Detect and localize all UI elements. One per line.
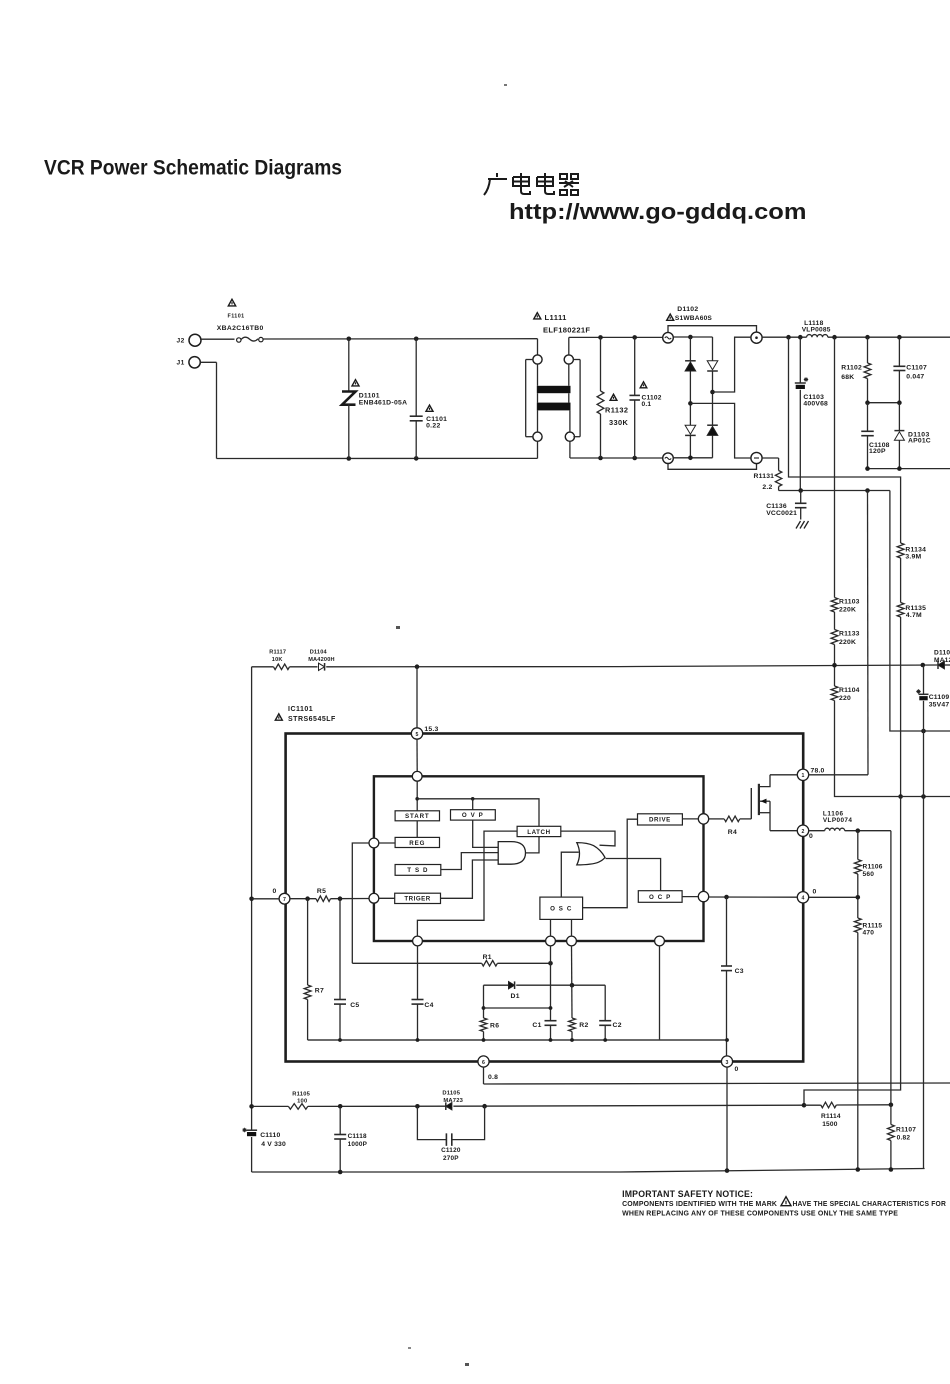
inner pin trigger: [369, 893, 379, 903]
junction top at C1102: [632, 335, 637, 340]
OR gate: [577, 843, 605, 865]
svg-text:2.2: 2.2: [762, 484, 772, 491]
capacitor C1120 bypass loop: [417, 1106, 446, 1139]
fuse F1101: [237, 338, 241, 342]
wire bridge positive link: [713, 337, 751, 392]
svg-text:VCC0021: VCC0021: [766, 510, 797, 517]
junction startup rail at R1103 chain: [832, 663, 837, 668]
resistor R1: [482, 961, 498, 967]
scan speck: [504, 84, 507, 86]
wire: ovp to gate input1: [473, 820, 499, 847]
wire: R5 to trigger pin: [331, 898, 370, 900]
inductor L1118: [807, 335, 828, 338]
svg-text:C3: C3: [735, 968, 744, 975]
safety notice warning triangle: [781, 1197, 791, 1206]
AND gate: [498, 842, 525, 865]
wire: osc to drive: [583, 819, 638, 908]
junction bus R2: [570, 1038, 574, 1042]
svg-text:5: 5: [416, 732, 419, 738]
wire: ground return rail: [252, 1171, 620, 1173]
junction R1131 net at C1136: [798, 488, 803, 493]
junction B+ at C1103: [798, 335, 803, 340]
wire: R1115 to bottom rail: [857, 933, 859, 1170]
junction L1106 output: [856, 828, 861, 833]
pin 5: [411, 728, 422, 739]
junction bridge top left leg: [688, 335, 693, 340]
junction R7 top: [305, 896, 310, 901]
junction bus C2: [603, 1038, 607, 1042]
svg-text:C1: C1: [532, 1022, 541, 1029]
svg-text:3: 3: [726, 1060, 729, 1066]
svg-text:35V47: 35V47: [929, 702, 950, 709]
junction top at R1132: [598, 335, 603, 340]
junction at C1109 bottom: [921, 729, 926, 734]
wire: R1131 net drop x890: [890, 491, 950, 732]
svg-text:0.8: 0.8: [488, 1074, 498, 1081]
svg-text:J2: J2: [177, 338, 185, 345]
junction bridge right mid: [710, 390, 715, 395]
wire: start-reg link: [416, 821, 418, 838]
svg-text:R1134: R1134: [905, 547, 926, 554]
svg-text:68K: 68K: [841, 374, 854, 381]
junction left rail at R1105: [249, 1104, 254, 1109]
junction left rail at pin7: [249, 897, 254, 902]
block OVP: [451, 810, 496, 820]
diode bridge top-right: [707, 361, 718, 370]
svg-text:VLP0074: VLP0074: [823, 817, 852, 824]
svg-text:D1105: D1105: [442, 1091, 460, 1097]
wire: vcc rail mid: [308, 1105, 446, 1107]
pin 6: [478, 1056, 489, 1067]
resistor R1133: [834, 612, 836, 630]
svg-text:1: 1: [802, 773, 805, 779]
wire: drive pin to R4: [709, 818, 725, 820]
wire: left rail: [251, 667, 253, 1130]
polarity mark C1110: [242, 1128, 246, 1132]
warning triangle for IC1101: [275, 714, 282, 720]
wire: drive to pin: [682, 818, 698, 820]
svg-text:STRS6545LF: STRS6545LF: [288, 716, 336, 723]
connector J1: [189, 357, 200, 368]
inner pin reg: [369, 838, 379, 848]
resistor R1106: [857, 831, 859, 860]
junction ovp feed: [471, 797, 475, 801]
block REG: [395, 837, 439, 847]
wire: latch feed horizontal: [417, 799, 539, 827]
wire: D1 loop left drop: [483, 985, 485, 1018]
resistor R7: [307, 899, 309, 985]
ground: [796, 521, 809, 529]
resistor R1131: [775, 471, 781, 487]
svg-text:D1: D1: [511, 993, 520, 1000]
wire: vcc rail left: [252, 1105, 289, 1107]
svg-text:C4: C4: [424, 1002, 433, 1009]
wire: drain to pin1: [770, 774, 797, 776]
wire bridge left diode leg: [689, 337, 691, 361]
svg-text:HAVE THE SPECIAL CHARACTERISTI: HAVE THE SPECIAL CHARACTERISTICS FOR: [793, 1199, 947, 1208]
svg-text:220K: 220K: [839, 607, 856, 614]
inner pin top: [412, 771, 422, 781]
svg-text:D1102: D1102: [677, 306, 698, 313]
wire: B+ sense drop x788: [789, 337, 901, 543]
wire: osc to or gate input: [561, 852, 579, 897]
wire: internal ground bus: [308, 1039, 727, 1041]
resistor R6: [480, 1018, 487, 1032]
junction D1 line at R2: [570, 983, 575, 988]
block START: [395, 811, 439, 821]
bridge AC terminal bottom: [663, 453, 674, 464]
junction startup rail at pin5: [415, 664, 420, 669]
wire: and gate to latch: [526, 837, 540, 853]
svg-text:270P: 270P: [443, 1155, 459, 1162]
junction on bottom rail at D1101: [347, 456, 352, 461]
wire: C1109 column lower: [923, 797, 925, 1169]
svg-text:0: 0: [273, 888, 277, 895]
svg-text:R1: R1: [483, 954, 492, 961]
svg-text:78.0: 78.0: [811, 768, 825, 775]
warning triangle for C1101: [426, 405, 433, 411]
wire: pin3 column lower: [726, 1067, 728, 1170]
capacitor C3: [726, 897, 728, 966]
wire: pin1 to riser: [809, 774, 868, 776]
capacitor C2: [599, 1020, 611, 1022]
svg-text:O C P: O C P: [649, 894, 671, 901]
svg-text:0: 0: [735, 1066, 739, 1073]
svg-text:R1133: R1133: [839, 631, 860, 638]
bridge AC terminal top: [663, 332, 674, 343]
wire: R1131 net horizontal: [779, 490, 890, 492]
capacitor C1136: [800, 491, 802, 504]
capacitor C4: [417, 946, 419, 1000]
wire: source to pin2: [770, 830, 797, 832]
connector J2: [189, 334, 201, 346]
svg-text:VLP0085: VLP0085: [802, 327, 831, 334]
svg-text:C2: C2: [613, 1022, 622, 1029]
svg-text:D110: D110: [934, 649, 950, 656]
wire: C2 drop: [604, 985, 606, 1021]
junction bus C1: [549, 1038, 553, 1042]
junction pin4 rail at C3: [724, 895, 729, 900]
svg-text:C1107: C1107: [906, 365, 927, 372]
svg-text:120P: 120P: [869, 448, 886, 455]
junction R1114 at R1107: [889, 1103, 894, 1108]
svg-text:XBA2C16TB0: XBA2C16TB0: [217, 325, 264, 332]
wire: startup rail left: [252, 666, 274, 668]
resistor R5: [316, 896, 331, 902]
inner pin b3: [567, 936, 577, 946]
junction B+ at R1102: [865, 335, 870, 340]
inner pin b1: [413, 936, 423, 946]
wire: osc bottom leads: [550, 919, 552, 936]
inner pin b2: [546, 936, 556, 946]
wire: triger pin link: [379, 897, 395, 899]
svg-text:REG: REG: [409, 840, 425, 847]
diode D1105: [446, 1103, 452, 1110]
svg-text:10K: 10K: [272, 657, 283, 663]
capacitor C1120: [445, 1133, 447, 1146]
wire: pin5 into chip: [416, 739, 418, 771]
bridge frame top: [668, 326, 757, 333]
warning triangle for L1111: [534, 313, 541, 319]
inner pin b4: [655, 936, 665, 946]
svg-text:LATCH: LATCH: [527, 829, 551, 836]
resistor R1134: [897, 543, 904, 558]
wire: pin6 drop: [483, 1067, 485, 1084]
bridge negative terminal: [751, 452, 762, 463]
junction vcc rail at C1118: [338, 1104, 343, 1109]
bridge frame bottom: [668, 464, 757, 470]
svg-text:R1104: R1104: [839, 687, 860, 694]
resistor R1117: [274, 664, 290, 670]
svg-text:S1WBA60S: S1WBA60S: [675, 315, 713, 322]
svg-text:R2: R2: [579, 1022, 588, 1029]
svg-text:R1115: R1115: [863, 922, 883, 929]
wire bridge right diode leg: [712, 337, 714, 361]
junction on bottom rail at C1101: [414, 456, 419, 461]
capacitor C1101: [415, 339, 417, 416]
junction startup rail at C1109: [921, 663, 926, 668]
resistor R1114: [821, 1102, 837, 1108]
wire: R1 to C1 column: [497, 962, 550, 964]
pin 7: [279, 893, 290, 904]
wire: B+ rail after L1118: [828, 336, 950, 338]
wire: AC neutral rail (bottom left): [217, 457, 538, 459]
junction ground rail at R1107: [889, 1167, 894, 1172]
wire: pin6 feedback rail: [484, 1083, 950, 1084]
svg-text:0.22: 0.22: [426, 423, 440, 430]
svg-text:560: 560: [863, 871, 875, 878]
pin 1: [797, 769, 808, 780]
wire: latch output right: [561, 831, 615, 846]
svg-text:0.1: 0.1: [642, 401, 652, 408]
svg-text:R1131: R1131: [754, 473, 775, 480]
surge absorber D1101 symbol: [348, 339, 350, 391]
wire: R1104 to feedback rail: [835, 701, 950, 797]
wire: pin5 to startup rail: [416, 667, 418, 728]
wire: reg to pin: [379, 842, 395, 844]
inner pin drive: [698, 814, 708, 824]
block LATCH: [517, 826, 561, 836]
junction bridge bottom left leg: [688, 456, 693, 461]
wire: bottom rail after filter: [570, 457, 663, 459]
junction R6 mid: [482, 1006, 486, 1010]
pin 3: [721, 1056, 732, 1067]
junction vcc rail at loop left: [415, 1104, 420, 1109]
wire: R6 mid link: [484, 1007, 551, 1009]
svg-text:F1101: F1101: [228, 313, 245, 319]
wire: R1102/C1107 mid link: [868, 402, 900, 404]
pin 4: [797, 892, 808, 903]
svg-text:400V68: 400V68: [803, 401, 828, 408]
svg-text:ENB461D-05A: ENB461D-05A: [359, 400, 408, 407]
svg-text:R5: R5: [317, 888, 326, 895]
power MOSFET gate: [750, 788, 752, 819]
inner pin ocp: [698, 891, 708, 901]
wire: pin4 to R1106 node: [809, 896, 858, 898]
junction B+ at C1107: [897, 335, 902, 340]
svg-text:O V P: O V P: [462, 812, 484, 819]
wire: R1133 to startup rail: [834, 645, 836, 666]
svg-text:R1117: R1117: [269, 649, 286, 655]
svg-text:R1103: R1103: [839, 599, 860, 606]
svg-text:D1104: D1104: [310, 649, 328, 655]
svg-text:T S D: T S D: [407, 867, 428, 874]
junction ground rail at pin3 column: [725, 1168, 730, 1173]
wire bridge AC bottom to legs: [673, 457, 712, 459]
warning triangle for D1102: [667, 314, 674, 320]
svg-text:http://www.go-gddq.com: http://www.go-gddq.com: [509, 199, 807, 224]
wire: pin2 net drop x891: [890, 831, 892, 1105]
svg-text:C5: C5: [350, 1002, 359, 1009]
junction start chain: [415, 797, 419, 801]
wire: B+ rail to L1118: [762, 336, 807, 338]
svg-text:J1: J1: [177, 360, 185, 367]
wire: left rail to pin7: [252, 898, 280, 900]
svg-text:0: 0: [813, 889, 817, 896]
junction C1 mid: [549, 1006, 553, 1010]
wire: triger to gate input3: [441, 860, 499, 898]
junction C5 top: [338, 896, 343, 901]
wire: startup rail right: [620, 665, 937, 667]
junction bus C4: [416, 1038, 420, 1042]
junction on top rail at D1101: [347, 337, 352, 342]
svg-text:220: 220: [839, 695, 851, 702]
capacitor C1: [545, 1020, 557, 1022]
svg-text:0.047: 0.047: [906, 373, 924, 380]
warning triangle for C1102: [640, 382, 647, 388]
wire: R4 to gate: [740, 818, 752, 820]
svg-text:R1132: R1132: [605, 406, 628, 415]
resistor R1102: [867, 337, 869, 363]
wire: ovp feed: [472, 799, 474, 810]
svg-text:C1109: C1109: [929, 694, 950, 701]
wire: top rail after filter: [569, 336, 663, 338]
svg-text:R1114: R1114: [821, 1113, 841, 1120]
wire: latch down to bottom pin: [417, 831, 517, 936]
wire: L1111 bottom stub right: [569, 441, 571, 458]
wire: or output to ocp: [606, 859, 661, 891]
svg-text:C1110: C1110: [260, 1132, 280, 1139]
diode D1104: [319, 663, 325, 670]
svg-text:D1101: D1101: [359, 392, 380, 399]
polarity mark C1109: [916, 689, 920, 693]
wire J1 stub: [200, 361, 216, 363]
zener diode D1103: [898, 403, 900, 431]
svg-text:6: 6: [482, 1060, 485, 1066]
wire: D1 loop top: [484, 984, 509, 986]
capacitor C1103 (electrolytic): [799, 337, 801, 383]
svg-text:2: 2: [802, 829, 805, 835]
power MOSFET channel: [758, 784, 760, 815]
svg-text:TRIGER: TRIGER: [404, 896, 430, 903]
diode bridge top-left: [685, 362, 696, 371]
svg-text:AP01C: AP01C: [908, 438, 931, 445]
wire: ocp to pin: [682, 896, 698, 898]
junction vcc rail at R1114: [802, 1103, 807, 1108]
junction ground rail at C1118: [338, 1170, 343, 1175]
capacitor C1110 (electrolytic): [246, 1129, 257, 1131]
resistor R4: [724, 816, 740, 822]
svg-text:330K: 330K: [609, 418, 629, 427]
power MOSFET source stub: [760, 812, 770, 814]
svg-text:VCR Power Schematic Diagrams: VCR Power Schematic Diagrams: [44, 157, 342, 180]
svg-text:ELF180221F: ELF180221F: [543, 326, 590, 335]
svg-text:R1107: R1107: [896, 1126, 916, 1133]
svg-text:L1111: L1111: [545, 313, 568, 322]
wire: L1111 bottom stub left: [537, 441, 539, 458]
wire: R1106 to pin4 rail: [857, 874, 859, 897]
svg-text:7: 7: [283, 897, 286, 903]
wire: L1111 output drop: [568, 337, 570, 355]
resistor R2: [569, 1018, 576, 1032]
IC1101 outer box: [286, 734, 804, 1062]
diode bridge bottom-left: [685, 425, 696, 434]
capacitor C5: [339, 899, 341, 1000]
wire: L1106 to output: [845, 830, 891, 832]
warning triangle for F1101: [228, 299, 235, 306]
svg-text:4.7M: 4.7M: [906, 612, 922, 619]
header text (CJK) guangdian dianqi: [484, 173, 579, 195]
wire bridge negative link: [690, 403, 751, 458]
svg-text:IMPORTANT SAFETY NOTICE:: IMPORTANT SAFETY NOTICE:: [622, 1189, 753, 1199]
svg-text:R1102: R1102: [841, 365, 862, 372]
wire bridge AC top to diode legs: [673, 336, 712, 338]
power MOSFET drain stub: [760, 775, 770, 787]
wire: pin1 riser to R1131 net: [867, 491, 870, 775]
svg-text:4 V 330: 4 V 330: [261, 1141, 286, 1148]
wire: pin7 to R5: [290, 898, 316, 900]
junction B+ at R1103 chain: [832, 335, 837, 340]
wire: tsd to gate input2: [441, 853, 498, 870]
svg-text:R6: R6: [490, 1023, 499, 1030]
junction vcc rail at loop right: [482, 1104, 487, 1109]
junction B+ at divider drop: [786, 335, 791, 340]
svg-text:R1106: R1106: [863, 864, 883, 871]
junction ground rail at R1115: [856, 1167, 861, 1172]
warning triangle for R1132: [610, 394, 617, 400]
wire: snubber bottom rail to edge: [868, 468, 950, 470]
block DRIVE: [638, 814, 683, 825]
junction bus R6: [482, 1038, 486, 1042]
wire: divider lower link: [804, 797, 901, 1106]
wire: startup rail mid: [290, 666, 318, 668]
pin 2: [797, 825, 808, 836]
svg-text:R4: R4: [728, 829, 737, 836]
bridge positive terminal: [751, 332, 762, 343]
wire: R1114 link: [804, 1104, 821, 1106]
svg-text:O S C: O S C: [550, 906, 572, 913]
capacitor C1118: [339, 1106, 341, 1134]
block TRIGER: [395, 893, 441, 903]
junction bottom at R1132: [598, 456, 603, 461]
junction snubber right: [897, 466, 902, 471]
diode D1: [509, 982, 515, 989]
svg-text:4: 4: [802, 896, 805, 902]
svg-text:15.3: 15.3: [424, 726, 438, 733]
junction mid link right: [897, 400, 902, 405]
resistor R1135: [897, 603, 904, 618]
wire: reg net down: [352, 843, 369, 963]
wire: D1 loop top right: [516, 984, 605, 986]
power MOSFET body stub with arrow: [760, 800, 770, 802]
junction bus pin3 column: [725, 1038, 729, 1042]
resistor R1132: [600, 337, 602, 391]
resistor R1104: [834, 665, 836, 686]
capacitor C1107: [898, 337, 900, 366]
inductor L1106: [825, 828, 845, 831]
junction R1 at C1 column: [548, 961, 553, 966]
resistor R1103: [834, 337, 836, 597]
